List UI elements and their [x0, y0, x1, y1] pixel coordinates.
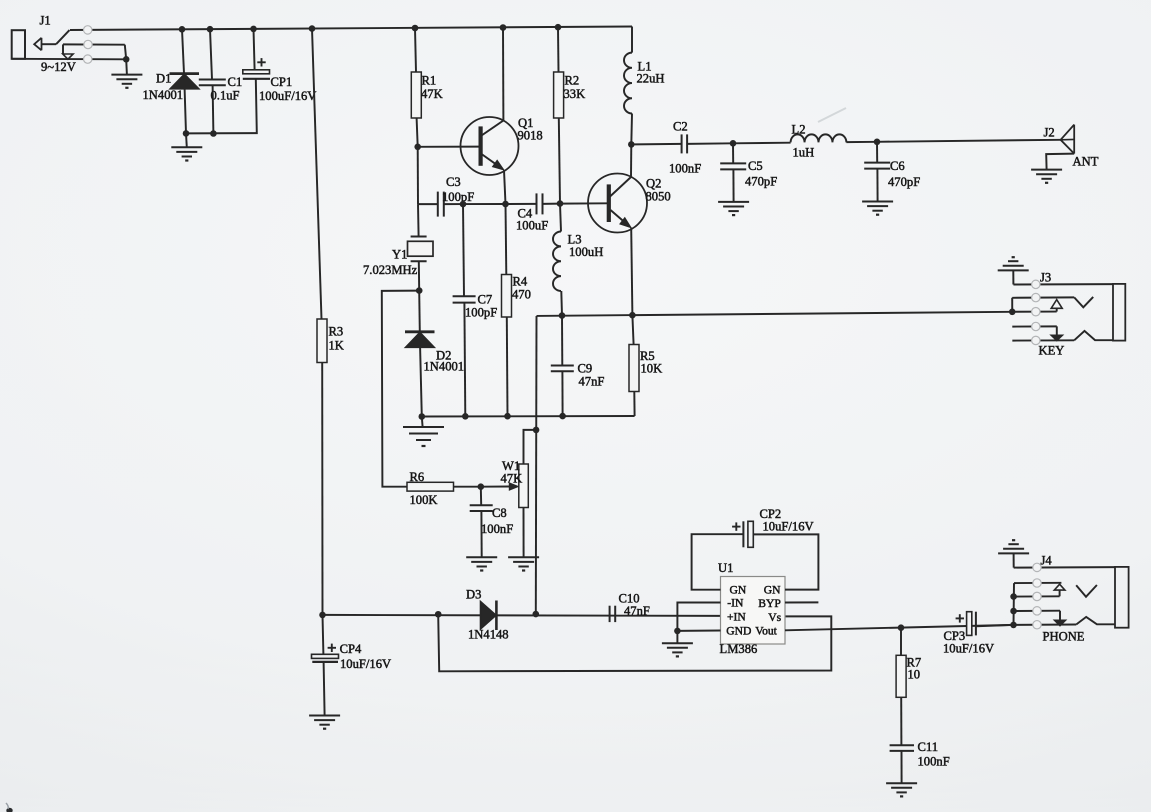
wire: R3 to audio bus	[321, 363, 323, 615]
svg-text:C2: C2	[673, 120, 688, 134]
contact spring J4 (sleeve)	[1076, 617, 1115, 625]
node: J4 row3	[1010, 593, 1017, 600]
wire: R2 down to C4 node	[559, 118, 560, 204]
ground (J4, inverted)	[998, 552, 1029, 554]
pin J4-3	[1033, 592, 1041, 600]
capacitor CP2 (electrolytic)	[742, 521, 744, 547]
svg-text:10K: 10K	[641, 362, 663, 376]
connector J4 row4	[1014, 610, 1060, 612]
pin J3-4	[1032, 322, 1040, 330]
node: C6 / filter	[874, 139, 881, 146]
svg-text:D3: D3	[466, 588, 481, 602]
node: rail / R2	[555, 24, 562, 31]
wire: C4 to Q2 base node	[543, 203, 560, 205]
svg-text:1N4148: 1N4148	[468, 628, 509, 642]
node: J4 row4	[1010, 608, 1017, 615]
svg-text:GND: GND	[726, 624, 751, 637]
connector J1 (DC power jack)	[12, 30, 127, 59]
node: R6 / C8 / wiper	[478, 483, 485, 490]
svg-text:33K: 33K	[564, 87, 586, 101]
svg-text:D1: D1	[156, 72, 171, 86]
svg-text:C7: C7	[478, 293, 493, 307]
svg-text:8050: 8050	[646, 190, 671, 204]
wire: L2 to C6 node	[846, 141, 877, 143]
svg-text:1N4001: 1N4001	[143, 88, 184, 102]
pin J4-5	[1033, 621, 1041, 629]
wire: R6 branch	[382, 291, 419, 487]
wire: rail to CP1	[254, 29, 255, 70]
svg-text:GN: GN	[764, 583, 781, 596]
pin J3-5	[1032, 336, 1040, 344]
pin J3-1	[1032, 280, 1040, 288]
node: Q1 emitter / R4	[502, 201, 509, 208]
pin J3-3	[1032, 308, 1040, 316]
wire: Q2 emitter down	[631, 228, 632, 316]
capacitor C2	[681, 134, 683, 153]
svg-text:100nF: 100nF	[481, 522, 513, 536]
svg-text:C6: C6	[890, 159, 905, 173]
node: audio bus / feedback	[435, 611, 442, 618]
svg-text:470: 470	[512, 288, 531, 302]
wire: -IN tie	[677, 603, 720, 631]
wire: wiper	[481, 486, 514, 488]
wire: +V top rail	[70, 27, 632, 31]
svg-text:1uH: 1uH	[793, 146, 815, 160]
inductor L3	[553, 232, 561, 292]
wire: R4 branch	[505, 204, 508, 275]
connector J3 body	[1113, 284, 1125, 341]
capacitor C8	[480, 487, 482, 506]
inductor L2	[791, 134, 847, 142]
svg-text:100nF: 100nF	[918, 755, 950, 769]
diode D3	[481, 602, 497, 630]
inductor L1	[624, 53, 632, 114]
svg-text:GN: GN	[730, 583, 747, 596]
pin J1-2	[84, 40, 92, 48]
wire: rail to R2	[557, 27, 560, 72]
tip contact J3 (up arrow)	[1056, 308, 1058, 311]
connector J3 row3	[1012, 311, 1056, 313]
diode D1	[170, 72, 200, 75]
wire: Q1 emitter down	[504, 170, 506, 204]
svg-text:-IN: -IN	[727, 597, 744, 610]
svg-text:U1: U1	[718, 561, 733, 575]
wire: gnd stub U1	[676, 631, 678, 643]
svg-text:47nF: 47nF	[579, 375, 605, 389]
wire: rail corner to L1	[631, 27, 633, 53]
node: emitter line / L3-C9	[559, 312, 566, 319]
svg-text:CP1: CP1	[271, 75, 293, 89]
node: bus / C7	[462, 413, 469, 420]
node: C5 / filter	[730, 140, 737, 147]
svg-text:Q2: Q2	[646, 177, 661, 191]
svg-text:47K: 47K	[421, 87, 443, 101]
svg-text:C5: C5	[748, 159, 763, 173]
node: gnd bus / D1	[183, 130, 190, 137]
capacitor CP1 (electrolytic)	[243, 70, 270, 74]
svg-text:R1: R1	[422, 74, 437, 88]
transistor Q2	[588, 174, 647, 233]
svg-text:100pF: 100pF	[442, 190, 474, 204]
svg-text:10uF/16V: 10uF/16V	[943, 642, 994, 656]
svg-text:100uH: 100uH	[569, 245, 603, 259]
wire: L3 to emitter line	[560, 291, 563, 316]
ground (CP4)	[309, 715, 340, 717]
svg-text:1K: 1K	[329, 339, 344, 353]
node A (rail / D1)	[179, 26, 186, 33]
wire: to crystal	[417, 204, 420, 236]
wire: J3 rows 2-3 tie	[1011, 298, 1013, 312]
wire: audio bus	[323, 615, 721, 616]
capacitor C10	[609, 606, 611, 622]
svg-text:100pF: 100pF	[465, 306, 497, 320]
wire: RF out line	[631, 143, 681, 146]
capacitor CP4 (electrolytic)	[322, 615, 325, 655]
svg-text:C1: C1	[228, 75, 243, 89]
pin BYP stub	[785, 601, 818, 603]
wire: feedback loop	[438, 615, 831, 672]
resistor R5	[632, 315, 633, 344]
wire: rail to R1	[415, 28, 416, 72]
ground (C11)	[886, 782, 917, 784]
svg-text:470pF: 470pF	[745, 175, 777, 189]
svg-text:0.1uF: 0.1uF	[211, 89, 240, 103]
wire: RF ground bus	[422, 415, 635, 418]
pin J4-1	[1033, 563, 1041, 571]
wire: gnd stub	[185, 133, 188, 147]
connector J3 row5	[1012, 339, 1074, 341]
capacitor C6	[876, 142, 878, 163]
resistor R1	[411, 72, 421, 118]
capacitor C11	[890, 744, 914, 746]
node: emitter line / Q2-R5	[629, 312, 636, 319]
contact J4 (down arrow, filled)	[1059, 611, 1061, 621]
svg-text:BYP: BYP	[758, 597, 781, 610]
node: gnd bus / C1	[210, 130, 217, 137]
resistor R4	[502, 275, 512, 318]
svg-text:R6: R6	[410, 470, 425, 484]
contact spring J3 (ring)	[1074, 297, 1093, 307]
capacitor C5	[732, 143, 734, 163]
svg-text:R2: R2	[565, 74, 580, 88]
contact J3 (down arrow, filled)	[1056, 326, 1058, 335]
resistor R3	[317, 319, 327, 363]
ground (RF bus)	[403, 426, 444, 428]
ground (W1)	[508, 556, 539, 558]
ground (antenna jack)	[1031, 169, 1062, 171]
node: Q1 base	[414, 144, 421, 151]
wire: J4 rows tie	[1013, 583, 1016, 625]
svg-text:J2: J2	[1044, 126, 1055, 140]
node: rail / CP1	[250, 26, 257, 33]
svg-text:C3: C3	[446, 175, 461, 189]
pin J3-2	[1032, 293, 1040, 301]
node: W1 top tie	[533, 427, 540, 434]
capacitor C3	[437, 192, 439, 217]
wire: J4 ground stub	[1013, 553, 1015, 567]
node: J3 / key line	[1009, 309, 1016, 316]
ground (filter bank)	[171, 146, 202, 148]
wire: Vout line	[785, 625, 1014, 630]
svg-text:10: 10	[908, 668, 921, 682]
wire: CP2 left leg	[692, 534, 744, 590]
wire: to emitter node	[463, 203, 506, 205]
wire: rail to D1	[182, 29, 184, 73]
node: Vout / R7	[898, 624, 905, 631]
node: Q2 collector / L1 / C2	[628, 141, 635, 148]
pin J1-1	[84, 26, 92, 34]
wire: L1 to collector node	[630, 114, 633, 145]
svg-text:100uF/16V: 100uF/16V	[259, 89, 316, 103]
svg-text:Y1: Y1	[392, 248, 407, 262]
wire: R1 to base node	[417, 118, 418, 147]
svg-text:C11: C11	[918, 740, 939, 754]
svg-text:9~12V: 9~12V	[41, 60, 76, 74]
svg-text:Vout: Vout	[755, 625, 777, 638]
mark (photo artifact, bottom-left)	[6, 808, 12, 812]
ground (C8)	[466, 556, 497, 558]
node: bus / R4	[504, 413, 511, 420]
wire: key line down leg	[535, 316, 538, 614]
node: C7 tap	[460, 201, 467, 208]
svg-text:470pF: 470pF	[888, 175, 920, 189]
node: Q2 base / R2 / L3	[557, 200, 564, 207]
pin J1-3	[84, 55, 92, 63]
connector J4 row3	[1014, 595, 1060, 597]
svg-text:J1: J1	[40, 14, 51, 28]
node: J4 row5	[1010, 622, 1017, 629]
wire: bus gnd stub	[421, 417, 424, 428]
capacitor CP3 (electrolytic)	[967, 612, 972, 636]
svg-text:10uF/16V: 10uF/16V	[763, 520, 814, 534]
wire: to antenna jack	[877, 140, 1061, 142]
resistor R7	[900, 628, 902, 656]
wire: to C4	[506, 203, 537, 205]
svg-text:47nF: 47nF	[624, 604, 650, 618]
capacitor C4	[536, 193, 538, 214]
wire: oscillator signal line	[418, 203, 438, 205]
wire: rail to C1	[210, 29, 212, 79]
wire: to L2	[733, 142, 791, 145]
svg-text:J4: J4	[1041, 554, 1053, 568]
wire: J1 to ground	[125, 59, 128, 74]
svg-text:CP4: CP4	[340, 642, 362, 656]
node: rail / R1	[412, 25, 419, 32]
svg-text:R4: R4	[513, 275, 528, 289]
capacitor C9	[561, 316, 563, 366]
node: audio bus / R3-CP4	[319, 612, 326, 619]
node: bus / D2	[419, 413, 426, 420]
node: J1 ground junction	[123, 56, 130, 63]
ground (power input)	[111, 74, 142, 76]
svg-text:100K: 100K	[410, 493, 438, 507]
smudge mark (photo artifact)	[818, 108, 846, 122]
svg-text:10uF/16V: 10uF/16V	[340, 657, 391, 671]
node: rail / Q1 collector	[500, 24, 507, 31]
wire: C2 to C5 node	[687, 142, 733, 145]
svg-text:1N4001: 1N4001	[424, 360, 465, 374]
resistor R6	[407, 482, 454, 491]
connector J3 row2	[1012, 296, 1074, 298]
wire: CP1 to gnd bus	[186, 79, 257, 134]
svg-text:KEY: KEY	[1039, 344, 1065, 358]
pin J4-4	[1033, 607, 1041, 615]
wire: base wire Q2	[560, 202, 607, 204]
wire: rail to R3	[312, 29, 322, 319]
connector J4 body	[1115, 567, 1129, 628]
tip contact J4 (up arrow)	[1059, 590, 1061, 596]
node: -IN / GND tie	[674, 628, 681, 635]
svg-text:LM386: LM386	[720, 642, 758, 656]
wire: C7 branch	[463, 204, 464, 296]
pin J4-2	[1033, 579, 1041, 587]
capacitor C1	[199, 79, 226, 81]
svg-text:PHONE: PHONE	[1043, 630, 1085, 644]
connector J4 row5	[976, 625, 1014, 626]
connector J3 row1	[1013, 283, 1113, 285]
wire: base node down	[417, 147, 419, 204]
wire: node to L3	[560, 204, 561, 232]
svg-text:47K: 47K	[501, 472, 523, 486]
connector J4 row1	[1014, 566, 1115, 569]
node: rail / C1	[207, 26, 214, 33]
connector J3 row4	[1012, 325, 1057, 327]
wire: C3 to C7 node	[444, 203, 463, 205]
node: bus / C9	[559, 413, 566, 420]
svg-text:C8: C8	[492, 506, 507, 520]
svg-text:C9: C9	[578, 362, 593, 376]
contact spring J4 (ring)	[1076, 585, 1097, 597]
wire: CP2 right leg	[753, 534, 818, 589]
svg-text:ANT: ANT	[1073, 155, 1099, 169]
ground (J3, inverted)	[998, 269, 1029, 271]
svg-text:L2: L2	[792, 123, 806, 137]
ground (U1)	[662, 642, 693, 644]
capacitor C7	[453, 295, 476, 297]
svg-text:+IN: +IN	[727, 611, 746, 624]
wire: D2 branch	[418, 291, 421, 332]
wire: GND pin	[677, 630, 720, 632]
node: audio bus / key leg	[533, 611, 540, 618]
svg-text:22uH: 22uH	[637, 72, 665, 86]
connector J4 row2	[1014, 582, 1061, 584]
wire: C1 to gnd bus	[212, 85, 215, 133]
wire: rail to Q1 collector	[502, 28, 504, 122]
potentiometer W1	[509, 483, 518, 490]
resistor R2	[554, 72, 564, 118]
wire: emitter/key line	[537, 312, 1013, 316]
node: Y1 / D2 / R6	[416, 287, 423, 294]
contact spring J3 (sleeve)	[1074, 331, 1113, 340]
transistor Q1	[461, 117, 519, 175]
svg-text:7.023MHz: 7.023MHz	[363, 263, 418, 277]
svg-text:9018: 9018	[518, 129, 543, 143]
svg-text:100nF: 100nF	[669, 162, 701, 176]
connector J2 (antenna)	[1061, 125, 1075, 154]
wire: D1 to gnd bus	[185, 89, 186, 134]
op-amp U1 (LM386 box)	[721, 577, 786, 645]
diode D2	[405, 330, 435, 333]
wire: J3 ground stub	[1012, 270, 1014, 284]
svg-text:R3: R3	[329, 325, 344, 339]
svg-text:J3: J3	[1040, 271, 1051, 285]
svg-text:100uF: 100uF	[516, 219, 548, 233]
crystal Y1	[411, 236, 427, 238]
svg-text:Vs: Vs	[768, 611, 781, 624]
node: rail / R3	[309, 25, 316, 32]
